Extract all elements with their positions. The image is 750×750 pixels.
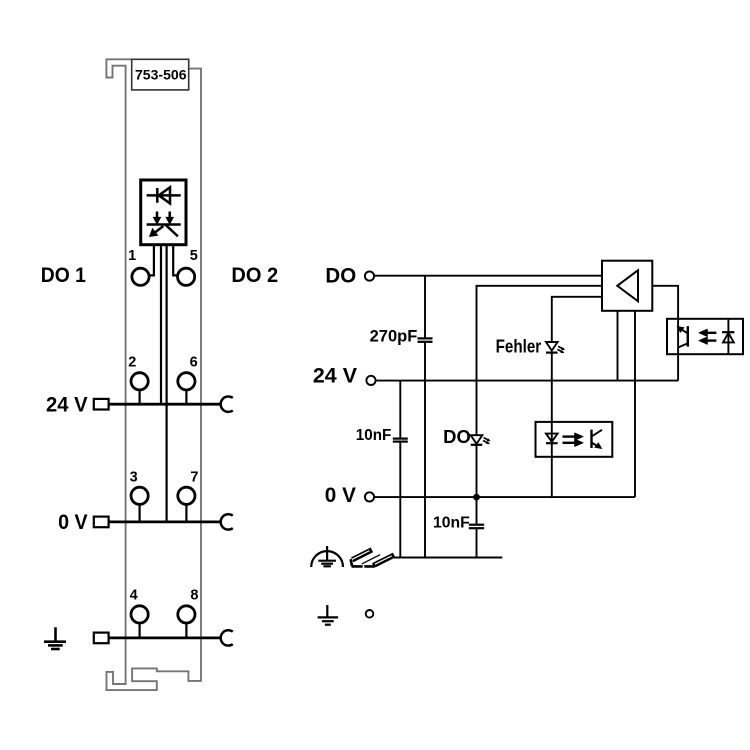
- wire 10nF branch upper: [399, 381, 401, 439]
- wire 0V line: [375, 496, 635, 498]
- terminal 6: [178, 373, 195, 390]
- svg-text:6: 6: [190, 355, 198, 371]
- optocoupler U2 box: [667, 319, 743, 354]
- terminal 8: [178, 606, 195, 623]
- pin 1 wire: [149, 245, 154, 276]
- svg-text:24 V: 24 V: [313, 364, 358, 388]
- diode D2 in U2: [722, 319, 734, 354]
- svg-text:10nF: 10nF: [356, 427, 392, 444]
- diode D1: [147, 187, 181, 203]
- terminal 1: [132, 268, 149, 285]
- pin 2 wire: [160, 245, 162, 405]
- suppressor symbol: [147, 212, 181, 237]
- wire driver pin A to 24V: [617, 311, 619, 381]
- op-amp driver U1: [602, 261, 652, 311]
- wire Fehler branch lower: [551, 353, 553, 498]
- terminal 4: [131, 606, 148, 623]
- 24V bus wire: [109, 403, 221, 406]
- node DO terminal circle: [365, 272, 374, 281]
- terminal 6 stem: [185, 381, 187, 404]
- svg-text:4: 4: [130, 588, 138, 604]
- svg-text:2: 2: [128, 355, 136, 371]
- wire 24V line: [376, 380, 678, 382]
- svg-text:5: 5: [190, 248, 198, 264]
- svg-text:10nF: 10nF: [433, 514, 470, 531]
- terminal 2 stem: [139, 381, 141, 404]
- wire 10nF second lower: [476, 528, 478, 557]
- terminal 7: [178, 487, 195, 504]
- wire Fehler branch horizontal: [552, 297, 602, 342]
- wire DO line: [375, 275, 602, 277]
- svg-text:DO 1: DO 1: [41, 263, 86, 287]
- light arrows U2: [699, 329, 717, 345]
- ground rail wire: [394, 557, 502, 559]
- status LED block: [141, 180, 186, 245]
- terminal 2: [131, 373, 148, 390]
- LED DO: [471, 435, 491, 445]
- svg-text:3: 3: [130, 469, 138, 485]
- earth bus wire: [109, 637, 221, 640]
- 24V feed plug: [94, 399, 109, 410]
- earth feed plug: [94, 633, 109, 644]
- terminal 8 stem: [185, 614, 187, 638]
- DIN rail symbol: [351, 547, 396, 567]
- earth symbol bottom: [318, 605, 339, 625]
- node 0V terminal circle: [365, 492, 374, 501]
- terminal 4 stem: [139, 614, 141, 638]
- 0V bus wire: [109, 521, 221, 524]
- 24V bus jumper contact: [221, 396, 233, 411]
- capacitor 10nF: [393, 439, 408, 442]
- LED Fehler: [546, 342, 565, 353]
- svg-text:0 V: 0 V: [325, 483, 357, 507]
- wire DO-LED branch lower: [476, 445, 478, 525]
- module outline: [106, 59, 201, 690]
- wire 10nF branch lower: [399, 442, 401, 558]
- 0V bus jumper contact: [221, 514, 233, 529]
- wire driver pin B to 0V: [634, 311, 636, 497]
- terminal 3 stem: [139, 496, 141, 522]
- terminal 5: [178, 268, 195, 285]
- svg-text:753-506: 753-506: [135, 68, 187, 83]
- svg-text:Fehler: Fehler: [496, 336, 542, 356]
- junction dot 0V: [473, 494, 480, 501]
- svg-text:24 V: 24 V: [46, 393, 88, 417]
- svg-text:DO: DO: [443, 427, 471, 447]
- LED in U3: [546, 434, 558, 444]
- terminal 3: [131, 487, 148, 504]
- svg-text:1: 1: [128, 248, 136, 264]
- pin 3 wire: [166, 245, 168, 522]
- 0V feed plug: [94, 517, 109, 528]
- capacitor 10nF second: [469, 525, 484, 529]
- svg-text:0 V: 0 V: [58, 510, 88, 534]
- svg-text:DO 2: DO 2: [231, 263, 278, 287]
- svg-text:270pF: 270pF: [370, 326, 418, 345]
- svg-text:7: 7: [190, 469, 198, 485]
- node 24V terminal circle: [366, 376, 375, 385]
- svg-text:DO: DO: [325, 263, 356, 287]
- capacitor 270pF: [418, 338, 433, 341]
- wire DO-LED branch horizontal: [477, 286, 603, 435]
- terminal 7 stem: [185, 496, 187, 522]
- wire 270pF branch upper: [424, 276, 426, 339]
- earth bus jumper contact: [221, 630, 233, 645]
- wire driver output to optocoupler: [652, 286, 678, 381]
- svg-text:8: 8: [190, 588, 198, 604]
- pin 4 wire: [173, 245, 177, 276]
- wire 270pF branch lower: [424, 342, 426, 558]
- optocoupler U3 box: [536, 422, 613, 457]
- ground symbol module: [44, 627, 66, 649]
- label box 753-506: [132, 59, 189, 90]
- transistor Q2 in U3: [592, 430, 603, 449]
- functional earth symbol: [311, 546, 343, 567]
- node bottom circle: [366, 610, 374, 618]
- transistor Q1 in U2: [677, 326, 688, 347]
- light arrows U3: [563, 433, 584, 447]
